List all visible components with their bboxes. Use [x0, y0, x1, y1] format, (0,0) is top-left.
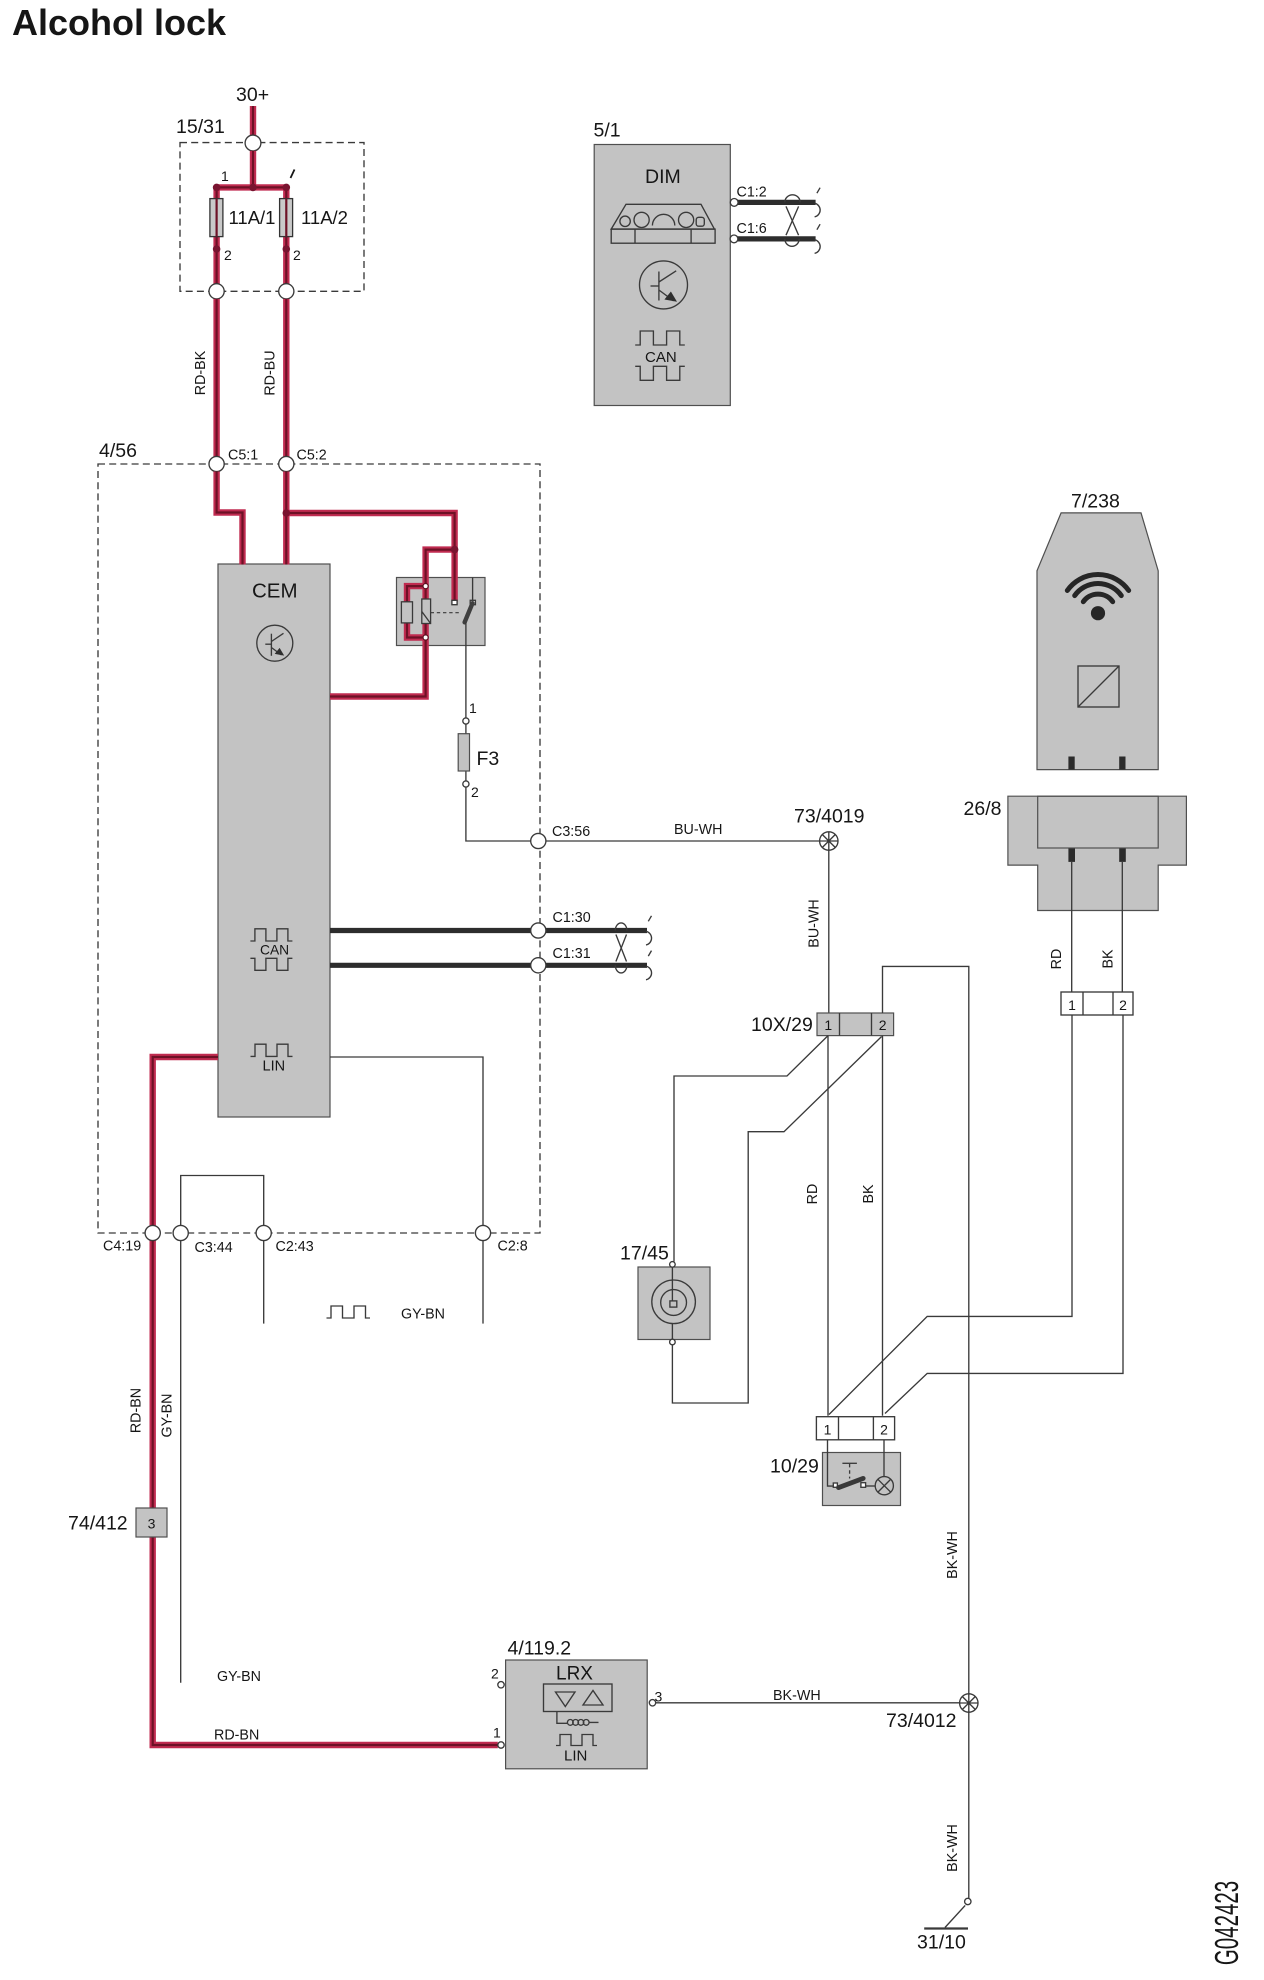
svg-text:73/4012: 73/4012: [886, 1710, 957, 1732]
wire BK-WH to ground: [968, 1712, 970, 1898]
svg-text:F3: F3: [477, 748, 500, 770]
CEM transistor icon: [257, 625, 293, 661]
svg-text:1: 1: [221, 168, 229, 184]
svg-text:10/29: 10/29: [770, 1456, 819, 1478]
svg-text:BK: BK: [861, 1184, 877, 1204]
wire BU-WH vertical: [828, 850, 830, 1013]
svg-text:4/119.2: 4/119.2: [508, 1638, 572, 1660]
wire coil pin to resistor (red): [407, 586, 426, 602]
10/29 lamp: [875, 1477, 893, 1495]
svg-text:RD-BK: RD-BK: [193, 350, 209, 395]
svg-text:BK: BK: [1101, 949, 1117, 969]
svg-text:30+: 30+: [236, 84, 269, 106]
svg-text:C5:2: C5:2: [297, 448, 327, 464]
fuse 11A/2: [280, 199, 293, 237]
ground terminal circle: [965, 1898, 971, 1904]
connector C2:43: [256, 1225, 271, 1240]
wire 10X/29 pin1 to horn 17/45: [674, 1036, 828, 1262]
svg-text:3: 3: [655, 1689, 663, 1705]
svg-text:C4:19: C4:19: [103, 1239, 141, 1255]
wire CEM to C2:8: [330, 1057, 483, 1225]
DIM transistor icon: [640, 261, 688, 309]
svg-text:11A/1: 11A/1: [229, 207, 276, 228]
pin C1:2: [730, 199, 738, 207]
svg-text:2: 2: [880, 1422, 888, 1438]
connector C3:56: [531, 833, 546, 848]
svg-text:3: 3: [148, 1516, 156, 1532]
10/29 switch blade: [839, 1478, 864, 1487]
svg-text:LIN: LIN: [564, 1748, 587, 1765]
wire relay to F3: [465, 622, 467, 718]
svg-text:5/1: 5/1: [594, 120, 621, 142]
CEM 4/56 dashed box: [98, 464, 540, 1233]
svg-text:C3:44: C3:44: [195, 1240, 233, 1256]
LIN wave annotation: [327, 1306, 371, 1318]
svg-text:BK-WH: BK-WH: [945, 1824, 961, 1872]
17/45 top pin: [670, 1262, 676, 1268]
connector C3:44: [173, 1225, 188, 1240]
LRX comparator icon: [544, 1684, 613, 1725]
twisted pair crossing CAN: [615, 923, 627, 973]
CAN wire break marks: [646, 916, 652, 980]
svg-text:CEM: CEM: [252, 580, 298, 603]
connector circle below 11A/2: [279, 284, 294, 299]
17/45 bottom pin: [670, 1339, 676, 1345]
pin 2 of F3: [463, 781, 469, 787]
wire pin1 into 10/29: [828, 1440, 834, 1486]
svg-text:2: 2: [879, 1017, 887, 1033]
connector C4:19: [145, 1225, 160, 1240]
CEM LIN symbol: [251, 1044, 293, 1056]
svg-text:CAN: CAN: [645, 349, 677, 366]
wire branch to relay coil (red): [426, 550, 455, 600]
svg-text:DIM: DIM: [645, 166, 681, 188]
svg-text:BU-WH: BU-WH: [807, 899, 823, 947]
svg-text:C2:43: C2:43: [276, 1239, 314, 1255]
CEM CAN symbol: [250, 929, 292, 941]
relay resistor: [401, 602, 412, 623]
26/8 pins: [1068, 849, 1075, 862]
wire C1:6 (thick): [736, 236, 816, 241]
wire coil bottom to CEM (red): [330, 624, 426, 697]
10/29 switch terminals: [833, 1483, 837, 1487]
pin 1 of F3: [463, 718, 469, 724]
pin 1 of 11A/2 (clipped tick): [291, 170, 295, 179]
connector circle below 11A/1: [209, 284, 224, 299]
svg-text:Alcohol lock: Alcohol lock: [12, 2, 227, 43]
relay fixed contact lead: [472, 578, 474, 601]
wire pin2 into 10/29: [883, 1440, 885, 1477]
svg-text:2: 2: [293, 247, 301, 263]
CEM box: [218, 564, 330, 1117]
node 73/4012: [960, 1694, 978, 1712]
svg-text:C2:8: C2:8: [498, 1239, 528, 1255]
twisted pair crossing DIM: [785, 195, 800, 247]
node 73/4019: [820, 832, 838, 850]
svg-text:73/4019: 73/4019: [794, 806, 865, 828]
inline connector below 26/8: [1061, 992, 1133, 1015]
svg-text:4/56: 4/56: [99, 440, 137, 462]
wire BK below 10X/29: [882, 1036, 884, 1416]
svg-text:GY-BN: GY-BN: [160, 1394, 176, 1438]
fuse holder 15/31 dashed box: [180, 143, 364, 292]
svg-text:LIN: LIN: [263, 1059, 286, 1075]
svg-text:26/8: 26/8: [964, 798, 1002, 820]
junction dots on supply rail: [213, 184, 221, 192]
pin 1 of LRX: [498, 1742, 504, 1748]
svg-text:2: 2: [471, 784, 479, 800]
wifi icon: [1067, 575, 1128, 602]
mouthpiece icon (square with diagonal): [1078, 666, 1119, 707]
wire fuse supply rail (red): [217, 184, 287, 190]
svg-text:74/412: 74/412: [68, 1513, 128, 1535]
svg-text:2: 2: [224, 247, 232, 263]
svg-text:2: 2: [491, 1666, 499, 1682]
7/238 pins: [1068, 757, 1074, 770]
connector C1:30: [531, 923, 546, 938]
wire BK from 26/8 to switch connector: [885, 1015, 1123, 1414]
svg-text:1: 1: [1068, 997, 1076, 1013]
wire BK from 26/8: [1121, 862, 1123, 992]
svg-text:C1:2: C1:2: [737, 185, 767, 201]
DIM cluster icon: [611, 204, 715, 243]
wire BU-WH horizontal: [546, 840, 820, 842]
svg-text:LRX: LRX: [556, 1664, 593, 1685]
wire 30+ feed (red): [250, 106, 256, 135]
svg-text:11A/2: 11A/2: [301, 207, 348, 228]
svg-text:17/45: 17/45: [620, 1243, 669, 1265]
svg-text:1: 1: [469, 700, 477, 716]
wire resistor bottom to coil bottom (red): [407, 623, 426, 637]
wire CAN high (thick): [330, 928, 647, 933]
wire through fuse 11A/1 (red): [213, 187, 219, 284]
wire stub below C2:43: [263, 1241, 265, 1324]
relay coil: [422, 599, 431, 624]
wire RD below 10X/29: [827, 1036, 829, 1416]
svg-text:10X/29: 10X/29: [751, 1014, 813, 1036]
svg-text:31/10: 31/10: [917, 1932, 966, 1954]
pin C1:6: [730, 235, 738, 243]
svg-text:BU-WH: BU-WH: [674, 822, 722, 838]
jumper C3:44 to C2:43: [181, 1176, 264, 1226]
wire RD from 26/8 to switch connector: [829, 1015, 1072, 1415]
svg-text:C3:56: C3:56: [552, 824, 590, 840]
connector C1:31: [531, 958, 546, 973]
svg-text:GY-BN: GY-BN: [401, 1307, 445, 1323]
svg-text:1: 1: [493, 1725, 501, 1741]
wire RD from 26/8: [1071, 862, 1073, 992]
svg-text:BK-WH: BK-WH: [945, 1531, 961, 1579]
wire RD-BK (red): [213, 299, 219, 457]
svg-text:C5:1: C5:1: [228, 448, 258, 464]
wire 10X/29 pin2 to BK-WH drop: [883, 966, 969, 1693]
inline connector above 10/29: [816, 1417, 894, 1440]
wire C5:2 to CEM (red): [283, 472, 289, 565]
relay contact terminals: [452, 600, 457, 604]
LRX LIN symbol: [556, 1735, 597, 1746]
wire RD-BU (red): [283, 299, 289, 457]
pin 2 of 11A/1: [213, 245, 221, 253]
relay switch blade: [465, 603, 473, 622]
svg-text:1: 1: [824, 1422, 832, 1438]
svg-text:RD-BU: RD-BU: [263, 350, 279, 395]
ground 31/10: [945, 1905, 965, 1927]
wire C1:2 (thick): [736, 200, 816, 205]
pin 2 of 11A/2: [283, 245, 291, 253]
svg-text:2: 2: [1119, 997, 1127, 1013]
relay box: [397, 578, 486, 646]
svg-text:7/238: 7/238: [1071, 491, 1120, 513]
connector C5:1: [209, 456, 224, 471]
wire stub below C2:8: [482, 1241, 484, 1324]
wire GY-BN long: [180, 1241, 182, 1683]
connector C5:2: [279, 456, 294, 471]
svg-text:G042423: G042423: [1208, 1881, 1245, 1965]
svg-text:RD-BN: RD-BN: [214, 1728, 259, 1744]
svg-text:C1:6: C1:6: [737, 221, 767, 237]
wire CEM to C4:19 (red): [153, 1057, 218, 1226]
node circle at 30+ entry: [245, 135, 261, 151]
fuse F3: [458, 734, 469, 771]
wire through fuse 11A/2 (red): [283, 187, 289, 284]
wire LRX pin3 BK-WH: [656, 1702, 960, 1704]
svg-text:BK-WH: BK-WH: [773, 1688, 821, 1704]
svg-text:C1:31: C1:31: [553, 946, 591, 962]
pin 2 of LRX: [498, 1682, 504, 1688]
DIM CAN symbol: [635, 331, 685, 345]
10/29 lamp lead: [866, 1485, 876, 1487]
pin 3 of LRX: [649, 1700, 655, 1706]
svg-text:RD: RD: [805, 1184, 821, 1205]
svg-text:RD: RD: [1049, 949, 1065, 970]
wire C5:1 to CEM (red): [217, 472, 243, 565]
DIM wire break marks: [815, 188, 821, 254]
connector C2:8: [475, 1225, 490, 1240]
svg-text:15/31: 15/31: [176, 116, 225, 138]
wire CAN low (thick): [330, 963, 647, 968]
wire 17/45 return to 10X/29 pin2: [672, 1037, 881, 1404]
svg-text:C1:30: C1:30: [553, 910, 591, 926]
svg-text:RD-BN: RD-BN: [129, 1388, 145, 1433]
wire RD-BN C4:19 to LRX pin1 (red): [153, 1240, 498, 1745]
wire circle to fuse rail (red): [250, 151, 256, 188]
wire F3 through: [466, 721, 531, 841]
wire branch to relay contact (red): [286, 513, 454, 602]
svg-text:1: 1: [824, 1017, 832, 1033]
fuse 11A/1: [210, 199, 223, 237]
svg-text:GY-BN: GY-BN: [217, 1669, 261, 1685]
relay coil pins: [423, 584, 428, 589]
relay actuator dashed link: [431, 612, 461, 614]
10/29 switch actuator: [842, 1462, 857, 1464]
svg-text:CAN: CAN: [260, 943, 289, 958]
